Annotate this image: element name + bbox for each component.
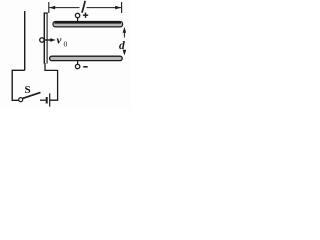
minus sign — [83, 66, 88, 68]
battery negative plate (short thick) — [46, 97, 48, 104]
wire (switch to battery) — [40, 99, 46, 101]
anode A (double-line electrode with cap) — [43, 13, 45, 64]
wire (battery to right side of loop, up to anode) — [45, 63, 58, 100]
switch S blade — [23, 92, 41, 98]
wire (cathode jog down to battery loop, left side and bottom to switch) — [12, 70, 25, 100]
top terminal stub — [77, 18, 79, 22]
svg-text:d: d — [119, 40, 125, 52]
dimension l: right line and arrowhead — [87, 7, 122, 9]
electron velocity arrow — [44, 39, 51, 41]
svg-text:S: S — [25, 84, 31, 96]
bottom terminal circle — [75, 64, 79, 68]
dimension d: lower line and down arrowhead — [123, 50, 125, 54]
top terminal circle — [75, 13, 79, 17]
top deflection plate — [53, 22, 123, 27]
anode aperture (hole) — [40, 38, 44, 42]
dimension d: upper line and up arrowhead — [123, 29, 125, 38]
svg-text:v: v — [57, 35, 62, 47]
switch S contact circle — [19, 98, 23, 102]
cathode K (left vertical electrode) — [24, 11, 26, 70]
dimension l: left extension tick — [48, 2, 50, 13]
plus sign — [83, 14, 88, 16]
svg-text:0: 0 — [64, 39, 68, 48]
bottom terminal stub — [77, 61, 79, 64]
dimension l: left line and arrowhead — [49, 7, 79, 9]
label l (italic stroke) — [82, 1, 85, 13]
dimension l: right extension tick — [121, 2, 123, 13]
bottom deflection plate — [50, 56, 123, 60]
battery positive plate (long thin) — [49, 93, 51, 106]
